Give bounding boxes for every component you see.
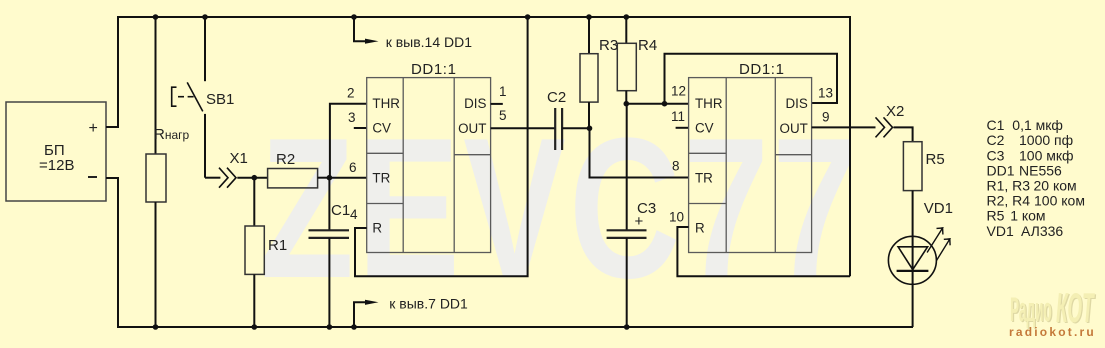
svg-text:DIS: DIS (464, 96, 486, 111)
svg-text:X2: X2 (886, 103, 904, 120)
resistor R1 (245, 178, 287, 327)
wire R pin10 loop (677, 227, 850, 276)
svg-text:VD1: VD1 (924, 200, 953, 217)
svg-text:VD1АЛ336: VD1АЛ336 (987, 223, 1064, 239)
svg-text:C3100 мкф: C3100 мкф (987, 147, 1074, 163)
svg-text:TR: TR (695, 170, 713, 185)
chip2 pin numbers (669, 84, 833, 225)
svg-text:DIS: DIS (785, 96, 807, 111)
node dot arrow14 (351, 14, 357, 20)
svg-text:6: 6 (349, 160, 357, 175)
wire DIS pin1 stub (491, 103, 503, 105)
wire THR pin2 (330, 104, 367, 178)
svg-text:R: R (372, 221, 382, 236)
svg-text:5: 5 (499, 108, 507, 123)
svg-text:10: 10 (669, 209, 684, 224)
svg-text:THR: THR (372, 96, 400, 111)
svg-text:11: 11 (671, 109, 685, 124)
op chip U2 DD1:1 (689, 78, 812, 253)
node dot Rnagr bottom (153, 324, 159, 330)
resistor R2 (268, 151, 330, 188)
op chip U1 DD1:1 (367, 78, 491, 253)
svg-text:Rнагр: Rнагр (154, 126, 190, 143)
connector X1 (219, 150, 248, 188)
svg-text:12: 12 (671, 84, 686, 99)
wire BP plus stub (106, 126, 119, 128)
svg-text:R5: R5 (926, 151, 945, 168)
svg-text:SB1: SB1 (206, 91, 234, 108)
svg-text:к выв.7 DD1: к выв.7 DD1 (389, 296, 468, 312)
wire R pin4 loop to Vcc (355, 17, 528, 276)
wire CV pin3 stub (354, 127, 367, 129)
node dot C3 bottom (624, 324, 630, 330)
resistor Rnagr (146, 17, 190, 327)
svg-text:+: + (89, 120, 98, 137)
svg-text:Радио: Радио (1010, 292, 1052, 329)
wire DIS pin13 loop (665, 54, 838, 104)
node dot THR-DIS2 (662, 101, 668, 107)
chip1 pin numbers (347, 84, 507, 222)
svg-text:C2: C2 (547, 89, 566, 106)
svg-text:2: 2 (347, 85, 355, 100)
wire X1 to node (237, 177, 267, 179)
node dot C1 bottom (327, 324, 333, 330)
capacitor C2 (547, 89, 590, 150)
svg-text:TR: TR (372, 170, 390, 185)
svg-text:R2, R4100 ком: R2, R4100 ком (987, 193, 1085, 209)
svg-text:3: 3 (348, 110, 356, 125)
node dot arrow7 (351, 324, 357, 330)
svg-text:C1: C1 (331, 202, 350, 219)
node dot R1 bottom (252, 324, 258, 330)
svg-text:THR: THR (695, 96, 723, 111)
chip1 labels (372, 61, 486, 236)
wire TR pin8 (590, 128, 689, 177)
wire X2 to R5 (894, 127, 913, 141)
LED VD1 (888, 200, 953, 327)
watermark ZEVC77 (260, 96, 861, 320)
svg-text:OUT: OUT (458, 121, 486, 136)
node dot pin4 rail (525, 14, 531, 20)
svg-text:+: + (635, 213, 644, 230)
svg-text:R: R (695, 221, 705, 236)
svg-text:R4: R4 (638, 37, 657, 54)
svg-text:1: 1 (499, 84, 507, 99)
arrow to pin7 DD1 (354, 296, 468, 328)
svg-text:DD1:1: DD1:1 (411, 61, 457, 78)
svg-text:X1: X1 (230, 150, 248, 167)
wire BP minus stub (106, 177, 119, 179)
capacitor C1 (309, 178, 351, 327)
wire TR pin6 (329, 177, 366, 179)
parts list (987, 117, 1085, 239)
wire THR pin12 (626, 103, 688, 105)
svg-text:4: 4 (350, 207, 358, 222)
svg-text:8: 8 (672, 159, 680, 174)
node dot R4 bottom (624, 101, 630, 107)
power supply BP (6, 102, 106, 201)
node dot R4 top (624, 14, 630, 20)
node dot Rnagr top (153, 14, 159, 20)
svg-text:CV: CV (695, 121, 714, 136)
svg-text:к выв.14 DD1: к выв.14 DD1 (386, 34, 473, 50)
logo RadioKOT (1009, 285, 1097, 339)
svg-text:C21000 пф: C21000 пф (987, 132, 1074, 148)
svg-text:=12В: =12В (39, 157, 74, 174)
svg-text:C10,1 мкф: C10,1 мкф (987, 117, 1063, 133)
resistor R5 (903, 142, 944, 237)
wire top rail (118, 17, 850, 276)
svg-text:9: 9 (822, 109, 830, 124)
svg-text:DD1:1: DD1:1 (739, 61, 785, 78)
svg-text:R1: R1 (268, 237, 287, 254)
node dot C2-R3-TR2 (587, 126, 593, 132)
svg-text:R51 ком: R51 ком (987, 208, 1046, 224)
svg-text:R3: R3 (599, 37, 618, 54)
svg-text:OUT: OUT (780, 121, 808, 136)
wire OUT pin9 (812, 126, 876, 128)
node dot X1-R1 (252, 175, 258, 181)
svg-text:R2: R2 (276, 151, 295, 168)
switch SB1 (172, 17, 235, 178)
svg-text:13: 13 (818, 85, 833, 100)
arrow to pin14 DD1 (354, 17, 472, 50)
svg-text:CV: CV (372, 121, 391, 136)
capacitor C3 (607, 104, 657, 327)
svg-text:radiokot.ru: radiokot.ru (1009, 325, 1096, 339)
node dot R3 top (586, 14, 592, 20)
svg-text:DD1NE556: DD1NE556 (987, 162, 1063, 178)
svg-text:R1, R320 ком: R1, R320 ком (987, 178, 1077, 194)
resistor R3 (580, 17, 618, 128)
wire OUT pin5 (491, 127, 556, 129)
connector X2 (876, 103, 905, 137)
node dot R2-C1-TR (327, 175, 333, 181)
wire bottom rail (118, 178, 913, 327)
wire CV pin11 stub (676, 127, 689, 129)
wire SB1 to X1 (205, 177, 220, 179)
resistor R4 (617, 17, 657, 104)
chip2 labels (695, 61, 808, 236)
node dot SB1 top (202, 14, 208, 20)
